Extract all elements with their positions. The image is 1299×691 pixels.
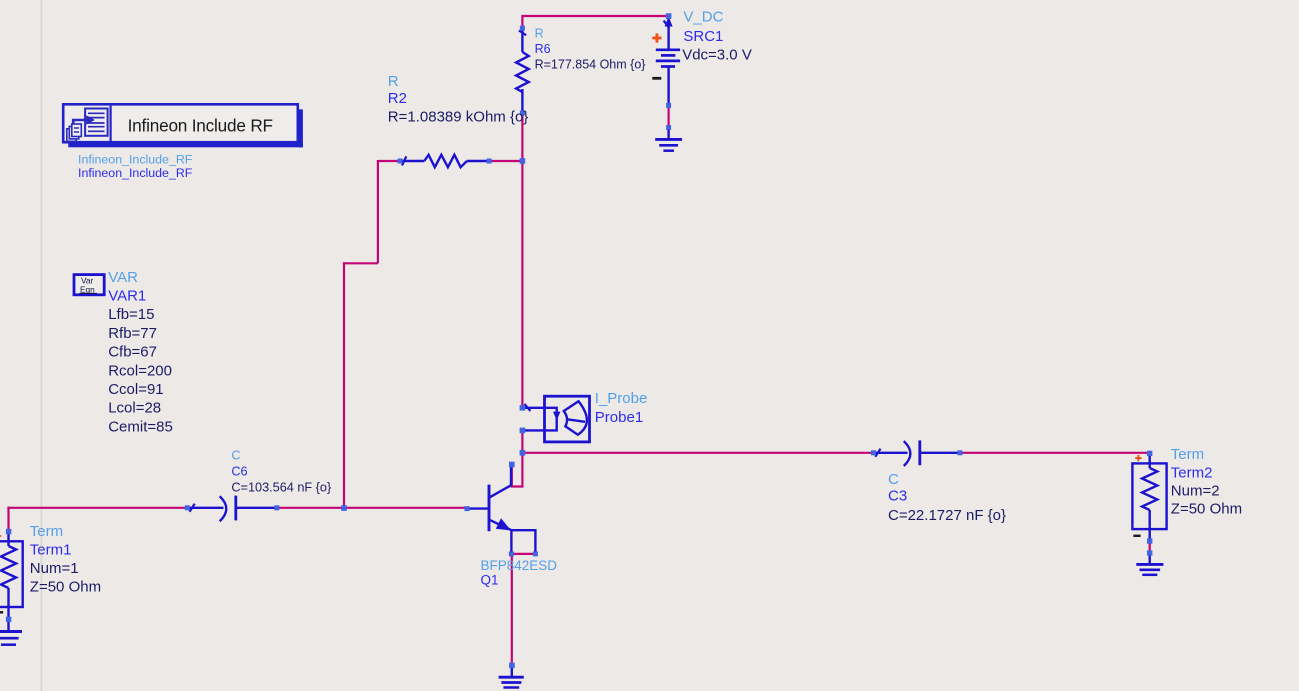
svg-text:Rcol=200: Rcol=200 xyxy=(108,363,172,380)
svg-text:Lcol=28: Lcol=28 xyxy=(108,400,161,417)
wire probe out to node xyxy=(521,430,523,452)
svg-text:C: C xyxy=(888,471,899,488)
svg-text:Probe1: Probe1 xyxy=(595,409,643,426)
VAR equation icon xyxy=(74,275,104,295)
svg-text:Term1: Term1 xyxy=(30,541,72,558)
svg-text:R: R xyxy=(535,27,544,41)
SRC1 arrowhead xyxy=(665,17,673,27)
svg-text:R=177.854 Ohm {o}: R=177.854 Ohm {o} xyxy=(535,57,646,71)
wire input left segment xyxy=(7,507,187,509)
ground under Q1 xyxy=(499,665,524,687)
current probe Probe1 xyxy=(522,396,589,442)
page boundary line xyxy=(40,0,42,691)
Term2 minus sign xyxy=(1133,535,1140,537)
wire collector jog xyxy=(512,453,523,487)
include box icon xyxy=(67,109,108,142)
svg-text:Term2: Term2 xyxy=(1171,464,1213,481)
svg-text:Infineon Include RF: Infineon Include RF xyxy=(128,115,273,135)
Term2 plus sign xyxy=(1135,455,1142,461)
svg-text:Z=50 Ohm: Z=50 Ohm xyxy=(1171,501,1242,518)
svg-text:R2: R2 xyxy=(388,90,407,107)
SRC1 plus sign xyxy=(652,33,661,42)
ground under Term2 xyxy=(1136,553,1163,575)
port Term2 xyxy=(1132,453,1166,541)
wire output node to C3 xyxy=(522,452,873,454)
wire C6 to base xyxy=(277,507,467,509)
svg-text:Term: Term xyxy=(30,523,63,540)
label VAR values xyxy=(108,306,173,436)
wire R2 right to node xyxy=(489,160,522,162)
svg-text:Num=1: Num=1 xyxy=(30,560,79,577)
svg-text:Ccol=91: Ccol=91 xyxy=(108,381,163,398)
svg-text:Cemit=85: Cemit=85 xyxy=(108,419,173,436)
svg-text:Cfb=67: Cfb=67 xyxy=(108,344,157,361)
svg-text:R: R xyxy=(388,73,399,90)
dc source SRC1 V_DC xyxy=(656,16,680,105)
svg-text:C: C xyxy=(231,449,240,463)
wire Term1 drop xyxy=(7,507,9,532)
capacitor C6 xyxy=(187,496,276,522)
wire feedback vertical xyxy=(377,160,379,263)
svg-text:R6: R6 xyxy=(535,42,551,56)
transistor Q1 BFP842ESD xyxy=(467,465,535,554)
svg-text:Z=50 Ohm: Z=50 Ohm xyxy=(30,578,101,595)
wire R6 bottom to node xyxy=(521,113,523,161)
wire feedback jog xyxy=(344,262,378,264)
svg-text:Infineon_Include_RF: Infineon_Include_RF xyxy=(78,153,193,167)
svg-text:VAR1: VAR1 xyxy=(108,288,146,305)
wire R6 top stub xyxy=(521,15,523,28)
ground under Term1 xyxy=(0,619,22,644)
svg-text:C=22.1727 nF {o}: C=22.1727 nF {o} xyxy=(888,507,1006,524)
Term1 minus sign xyxy=(0,611,3,613)
SRC1 minus sign xyxy=(652,77,661,80)
wire Term2 to ground xyxy=(1149,541,1151,553)
svg-text:Infineon_Include_RF: Infineon_Include_RF xyxy=(78,166,193,180)
Probe1 arrowhead xyxy=(553,412,560,421)
wire C3 to Term2 xyxy=(960,452,1150,454)
svg-text:I_Probe: I_Probe xyxy=(595,390,648,407)
svg-text:BFP842ESD: BFP842ESD xyxy=(481,558,558,573)
resistor R2 xyxy=(400,155,489,167)
svg-text:Lfb=15: Lfb=15 xyxy=(108,306,154,323)
wire emitter bottom xyxy=(511,553,535,555)
svg-text:Rfb=77: Rfb=77 xyxy=(108,325,157,342)
svg-text:VAR: VAR xyxy=(108,269,138,286)
ground under SRC1 xyxy=(655,128,682,151)
svg-text:Term: Term xyxy=(1171,446,1204,463)
svg-text:C3: C3 xyxy=(888,488,907,505)
Q1 emitter arrowhead xyxy=(496,518,511,530)
svg-text:C6: C6 xyxy=(231,464,247,478)
svg-text:Num=2: Num=2 xyxy=(1171,483,1220,500)
svg-text:R=1.08389 kOhm {o}: R=1.08389 kOhm {o} xyxy=(388,109,529,126)
include box icon arrowhead xyxy=(86,115,95,125)
svg-text:C=103.564 nF {o}: C=103.564 nF {o} xyxy=(231,480,332,494)
wire node down to probe xyxy=(521,161,523,408)
resistor R6 xyxy=(516,28,529,113)
port Term1 xyxy=(0,531,23,619)
wire R2 left xyxy=(378,160,400,162)
svg-text:SRC1: SRC1 xyxy=(683,28,723,45)
wire feedback down to base line xyxy=(343,262,345,508)
svg-text:V_DC: V_DC xyxy=(683,9,723,26)
wire emitter to ground xyxy=(511,554,513,665)
wire SRC1 to ground xyxy=(667,105,669,127)
Term1 plus sign xyxy=(0,534,1,539)
capacitor C3 xyxy=(874,440,960,466)
svg-text:Q1: Q1 xyxy=(481,572,499,587)
svg-text:Vdc=3.0 V: Vdc=3.0 V xyxy=(682,47,752,64)
include box Infineon Include RF xyxy=(63,104,303,147)
wire top VCC horizontal xyxy=(522,15,668,17)
